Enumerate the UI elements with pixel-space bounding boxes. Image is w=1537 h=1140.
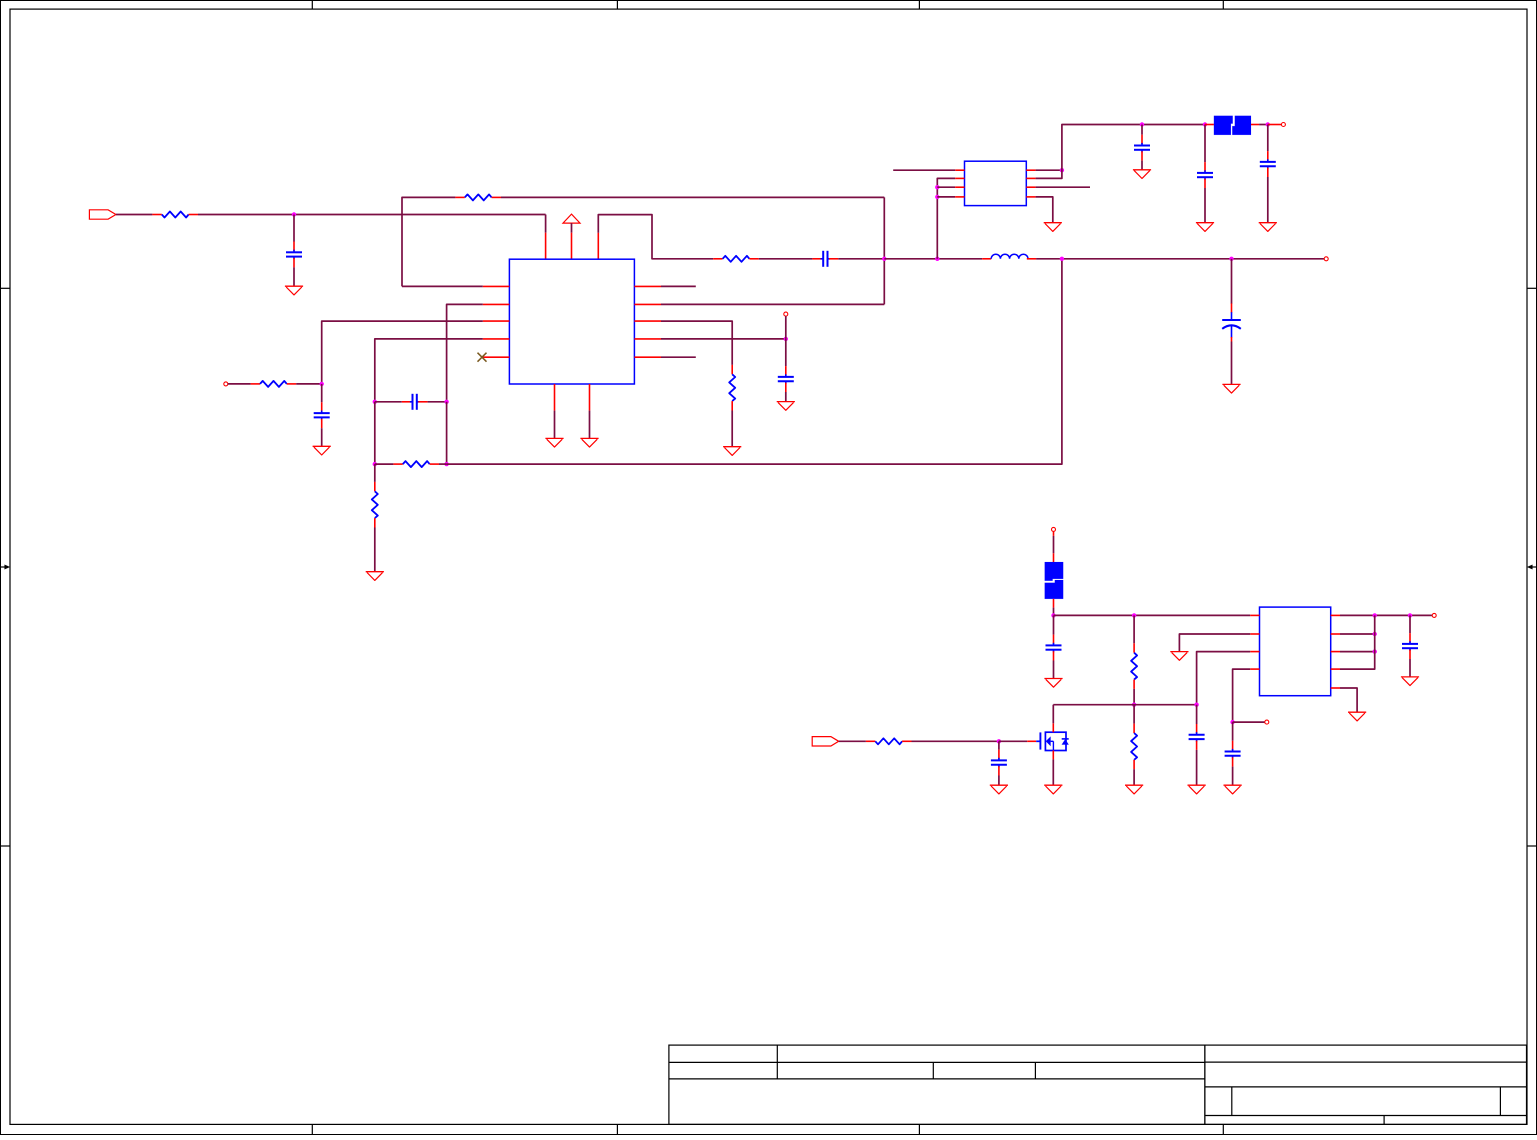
pin B2 of U1 bbox=[589, 384, 591, 411]
wire R7 to ground bbox=[374, 528, 376, 572]
no-connect X mark bbox=[478, 353, 487, 362]
wire top feedback loop bbox=[402, 197, 455, 286]
wire Q1 source to ground bbox=[1052, 759, 1054, 785]
wire B1 to ground bbox=[554, 411, 556, 439]
wire U3 L4 to junction P4 bbox=[1233, 669, 1251, 722]
wire G3 to U2 L4 bbox=[937, 196, 955, 198]
wire C5 left bbox=[375, 401, 402, 403]
ground under C8 bbox=[1196, 222, 1214, 224]
wire E2 to R6 bbox=[375, 463, 394, 465]
wire U3 R3 to S vertical bbox=[1340, 651, 1375, 653]
wire B2 to ground bbox=[589, 411, 591, 439]
fuse F2 bbox=[1045, 562, 1064, 581]
gate node wire bbox=[1053, 704, 1196, 706]
wire M2 to C8 bbox=[1204, 125, 1206, 163]
junction P3 bbox=[1194, 703, 1198, 707]
capacitor C10 bbox=[1053, 635, 1055, 644]
ground under U2 R4 bbox=[1044, 222, 1062, 224]
wire C9 to ground bbox=[1267, 177, 1269, 223]
wire C11 to ground bbox=[998, 776, 1000, 786]
wire Q to transistor gate bbox=[999, 740, 1027, 742]
wire L4 to junction E bbox=[375, 339, 483, 402]
resistor R6 bridge bbox=[393, 463, 402, 465]
port P2 bbox=[812, 737, 839, 746]
bottom feedback wire bbox=[447, 259, 1062, 464]
pin T2 of U1 (power) bbox=[571, 233, 573, 260]
pin R2 of U3 bbox=[1331, 633, 1340, 635]
pin L3 of U2 bbox=[955, 186, 964, 188]
output pin circle J3 bbox=[1281, 123, 1285, 127]
pin L4 of U2 bbox=[955, 196, 964, 198]
pin L3 of U1 bbox=[483, 320, 510, 322]
pin R3 of U1 bbox=[634, 320, 661, 322]
wire P4 down to C13 bbox=[1232, 722, 1234, 741]
resistor R10 bbox=[866, 740, 875, 742]
ground at U3 R5 bbox=[1348, 711, 1366, 713]
wire Q to C11 bbox=[998, 741, 1000, 749]
transistor Q1 bbox=[1036, 740, 1040, 742]
wire junction A down to C1 bbox=[293, 215, 295, 242]
wire C5 right bbox=[428, 401, 447, 403]
wire port P2 to R10 bbox=[839, 740, 866, 742]
junction M2 bbox=[1203, 122, 1207, 126]
wire R1 stub bbox=[661, 285, 696, 287]
wire R6 to D2 bbox=[439, 463, 447, 465]
pin B1 of U1 bbox=[554, 384, 556, 411]
wire S2 down to C14 bbox=[1409, 615, 1411, 633]
wire U2 R1 to junction K bbox=[1036, 169, 1062, 171]
wire L1 elbow bbox=[402, 285, 483, 287]
wire C14 to ground bbox=[1409, 659, 1411, 677]
wire J4 to fuse F2 bbox=[1053, 536, 1055, 553]
wire C10 to ground bbox=[1053, 661, 1055, 679]
wire P3 to C12 bbox=[1196, 705, 1198, 724]
wire L2 to junction D bbox=[447, 304, 483, 401]
wire R4pin to junction F bbox=[661, 338, 786, 340]
title block right section bbox=[1205, 1045, 1527, 1124]
wire J1 to R5 bbox=[228, 383, 251, 385]
wire D1 down bbox=[446, 402, 448, 464]
resistor R5 input bbox=[251, 383, 260, 385]
wire F1 to junction M3 bbox=[1259, 124, 1268, 126]
pin L5 of U1 no-connect bbox=[483, 356, 510, 358]
ground under B2 bbox=[580, 437, 598, 439]
wire node B to pin R2 of U1 bbox=[661, 303, 884, 305]
wire C12 to ground bbox=[1196, 750, 1198, 785]
junction G regulator tap bbox=[935, 257, 939, 261]
ground under R7 bbox=[366, 571, 384, 573]
input pin circle J1 bbox=[224, 382, 228, 386]
wire G2 to U2 L3 bbox=[937, 186, 955, 188]
pin L2 of U1 bbox=[483, 303, 510, 305]
transistor Q1 source pin bbox=[1052, 751, 1054, 760]
pin R1 of U2 bbox=[1026, 169, 1035, 171]
wire R10 to junction Q bbox=[912, 740, 999, 742]
ground under R9 bbox=[1125, 784, 1143, 786]
junction K bbox=[1060, 168, 1064, 172]
resistor R8 divider top bbox=[1133, 643, 1135, 652]
pin R3 of U3 bbox=[1331, 651, 1340, 653]
resistor R3 top feedback bbox=[455, 196, 464, 198]
capacitor C3 bbox=[785, 366, 787, 375]
pin L1 of U3 bbox=[1250, 614, 1259, 616]
junction A bbox=[292, 212, 296, 216]
junction S1 bbox=[1373, 613, 1377, 617]
wire C3 to ground bbox=[785, 392, 787, 402]
capacitor C4 bbox=[321, 402, 323, 411]
rail wire N to U3 bbox=[1054, 614, 1251, 616]
resistor R1 bbox=[152, 214, 161, 216]
wire TP1 to junction F bbox=[785, 316, 787, 339]
top rail wire bbox=[1142, 124, 1205, 126]
pin R3 of U2 bbox=[1026, 186, 1035, 188]
inductor L1 bbox=[982, 258, 991, 260]
fuse F2 pin top bbox=[1053, 553, 1055, 562]
junction M3 bbox=[1266, 122, 1270, 126]
zone ticks left bbox=[1, 287, 11, 289]
pin L4 of U1 bbox=[483, 338, 510, 340]
fuse F2 pin bottom bbox=[1053, 599, 1055, 608]
pin R5 of U3 bbox=[1331, 687, 1340, 689]
pin L2 of U2 bbox=[955, 177, 964, 179]
ground under C11 bbox=[990, 784, 1008, 786]
pin L1 of U1 bbox=[483, 285, 510, 287]
wire C6 to ground bbox=[1231, 342, 1233, 385]
ground under C9 bbox=[1259, 222, 1277, 224]
wire U2 R3 stub bbox=[1036, 186, 1090, 188]
pin R5 of U1 bbox=[634, 356, 661, 358]
wire R8 to junction P2 bbox=[1133, 689, 1135, 705]
pin R2 of U1 bbox=[634, 303, 661, 305]
wire junction I to C6 bbox=[1231, 259, 1233, 304]
node B vertical wire bbox=[883, 197, 885, 304]
output line wire bbox=[1036, 258, 1324, 260]
polarized capacitor C6 bbox=[1231, 303, 1233, 312]
pin R4 of U2 bbox=[1026, 196, 1035, 198]
ground under C6 bbox=[1222, 383, 1240, 385]
junction H feedback tap bbox=[1060, 257, 1064, 261]
wire F2 to junction N bbox=[1053, 608, 1055, 616]
wire U2 L1 stub bbox=[893, 169, 955, 171]
pin circle J5 bbox=[1265, 720, 1269, 724]
wire P2 to R9 bbox=[1133, 705, 1135, 724]
title block left section bbox=[669, 1045, 1205, 1124]
pin circle J6 bbox=[1432, 613, 1436, 617]
wire L3 to junction C bbox=[322, 321, 483, 384]
ground under C12 bbox=[1188, 784, 1206, 786]
pin L4 of U3 bbox=[1250, 668, 1259, 670]
pin T3 of U1 bbox=[597, 233, 599, 260]
resistor R2 feedback bbox=[713, 258, 722, 260]
wire pin T3 to feedback node bbox=[598, 215, 713, 259]
junction node B bbox=[882, 257, 886, 261]
junction I bulk cap tap bbox=[1229, 257, 1233, 261]
zone ticks right bbox=[1527, 287, 1537, 289]
IC U2 regulator bbox=[965, 161, 1027, 205]
junction F bbox=[784, 337, 788, 341]
resistor R7 pulldown bbox=[374, 482, 376, 491]
output pin circle J2 bbox=[1324, 257, 1328, 261]
port P1 bbox=[89, 210, 116, 219]
wire P1 to R8 bbox=[1133, 615, 1135, 643]
capacitor C11 bbox=[998, 750, 1000, 759]
test point circle TP1 bbox=[784, 312, 788, 316]
wire E1 down bbox=[374, 402, 376, 464]
transistor Q1 drain pin bbox=[1052, 723, 1054, 732]
capacitor C2 series bbox=[812, 258, 821, 260]
pin R1 of U1 bbox=[634, 285, 661, 287]
wire R2 to C2 bbox=[759, 258, 813, 260]
junction P1 bbox=[1132, 613, 1136, 617]
wire R5 stub bbox=[661, 356, 696, 358]
junction G3 bbox=[935, 195, 939, 199]
wire E2 down to R7 bbox=[374, 464, 376, 482]
wire M3 to C9 bbox=[1267, 125, 1269, 152]
pin of output circle J3 bbox=[1268, 124, 1282, 126]
junction C bbox=[320, 382, 324, 386]
wire node B to inductor bbox=[884, 258, 982, 260]
junction D2 bbox=[444, 462, 448, 466]
capacitor C14 bbox=[1409, 633, 1411, 642]
pin R1 of U3 bbox=[1331, 614, 1340, 616]
wire junction C to C4 bbox=[321, 384, 323, 402]
wire port P1 to IC U1 pin T1 bbox=[116, 214, 152, 216]
IC U1 bbox=[509, 259, 634, 384]
junction S3 bbox=[1373, 632, 1377, 636]
wire P4 to circle J5 bbox=[1233, 721, 1265, 723]
ground under R4 bbox=[723, 446, 741, 448]
wire U3 R5 to ground bbox=[1340, 688, 1357, 712]
zone ticks bottom bbox=[311, 1124, 313, 1134]
wire U3 R2 to S vertical bbox=[1340, 633, 1375, 635]
ground under C1 bbox=[285, 285, 303, 287]
junction E2 bbox=[373, 462, 377, 466]
wire junction G up to U2 bbox=[937, 178, 955, 258]
wire C4 to ground bbox=[321, 428, 323, 446]
wire C1 to ground bbox=[293, 267, 295, 286]
capacitor C7 bbox=[1141, 135, 1143, 144]
junction M1 bbox=[1140, 122, 1144, 126]
wire C13 to ground bbox=[1232, 767, 1234, 786]
junction P2 bbox=[1132, 703, 1136, 707]
ground under B1 bbox=[545, 437, 563, 439]
wire U2 R4 to ground bbox=[1036, 197, 1053, 223]
wire R3 to resistor R4 bbox=[661, 321, 732, 365]
wire R9 to ground bbox=[1133, 769, 1135, 785]
fuse F1 pin right bbox=[1251, 124, 1259, 126]
fuse F1 pin left bbox=[1205, 124, 1214, 126]
junction P4 bbox=[1230, 720, 1234, 724]
wire R1 to junction A bbox=[198, 214, 546, 216]
ground under C14 bbox=[1401, 676, 1419, 678]
capacitor C8 bbox=[1204, 162, 1206, 171]
wire C7 to ground bbox=[1141, 161, 1143, 170]
capacitor C1 bbox=[293, 242, 295, 251]
wire U3 L3 to junction P3 bbox=[1197, 652, 1251, 705]
pin R4 of U1 bbox=[634, 338, 661, 340]
capacitor C13 bbox=[1232, 741, 1234, 750]
wire U3 L2 to ground bbox=[1179, 634, 1250, 652]
junction S2 bbox=[1408, 613, 1412, 617]
ground under C3 bbox=[777, 401, 795, 403]
capacitor C12 bbox=[1196, 724, 1198, 733]
pin L3 of U3 bbox=[1250, 651, 1259, 653]
transistor Q1 gate pin bbox=[1027, 740, 1036, 742]
wire junction F to C3 bbox=[785, 339, 787, 366]
junction D1 cap right bbox=[444, 400, 448, 404]
wire VCC to pin T2 bbox=[571, 223, 573, 233]
wire R5 to junction C bbox=[296, 383, 322, 385]
ground under C7 bbox=[1133, 169, 1151, 171]
wire M1 to C7 bbox=[1141, 125, 1143, 135]
ground at U3 L2 bbox=[1170, 651, 1188, 653]
pin R2 of U2 bbox=[1026, 177, 1035, 179]
ground under C4 bbox=[313, 445, 331, 447]
ground under C13 bbox=[1224, 784, 1242, 786]
right mid arrow bbox=[1531, 566, 1537, 568]
pin L1 of U2 bbox=[955, 169, 964, 171]
wire R3 to node B vertical bbox=[501, 196, 884, 198]
capacitor C9 bbox=[1267, 151, 1269, 160]
junction G2 bbox=[935, 185, 939, 189]
wire U2 R2 up to top rail bbox=[1036, 125, 1142, 179]
capacitor C5 bridge bbox=[402, 401, 411, 403]
junction S4 bbox=[1373, 649, 1377, 653]
junction E1 cap left bbox=[373, 400, 377, 404]
zone ticks top bbox=[311, 1, 313, 10]
wire N down to C10 bbox=[1053, 615, 1055, 634]
wire U3 R4 elbow bbox=[1340, 615, 1375, 669]
junction N bbox=[1051, 613, 1055, 617]
junction Q bbox=[997, 739, 1001, 743]
wire IC U1 pin T1 drop bbox=[545, 215, 547, 233]
fuse F1 bbox=[1214, 116, 1233, 135]
wire C2 to node B bbox=[838, 258, 884, 260]
ground under Q1 bbox=[1044, 784, 1062, 786]
ground under C10 bbox=[1044, 678, 1062, 680]
resistor R4 pulldown bbox=[731, 365, 733, 374]
pin L2 of U3 bbox=[1250, 633, 1259, 635]
pin R4 of U3 bbox=[1331, 668, 1340, 670]
left mid arrow bbox=[1, 566, 7, 568]
pin J4 stub bbox=[1053, 531, 1055, 536]
input pin circle J4 bbox=[1052, 527, 1056, 531]
wire C8 to ground bbox=[1204, 188, 1206, 223]
wire Q1 drain up bbox=[1052, 705, 1054, 724]
wire U3 R1 rail bbox=[1340, 614, 1432, 616]
IC U3 bbox=[1260, 607, 1331, 696]
resistor R9 divider bottom bbox=[1133, 724, 1135, 733]
wire R4 to ground bbox=[731, 411, 733, 447]
pin T1 of U1 bbox=[545, 233, 547, 260]
power symbol VCC bbox=[563, 214, 580, 223]
